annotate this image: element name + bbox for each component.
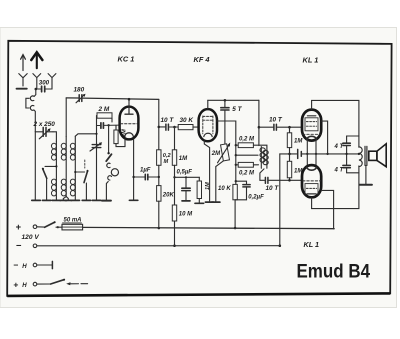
wire antenna column to ground <box>34 132 36 201</box>
wave switch right <box>74 160 88 200</box>
svg-text:120 V: 120 V <box>22 234 40 241</box>
resistor 20K <box>157 186 161 228</box>
KF4 screen side wire <box>217 121 236 181</box>
svg-text:4 T: 4 T <box>334 167 345 173</box>
KL1 upper screen wire <box>321 121 327 154</box>
antenna big arrow <box>31 52 42 68</box>
trimmer capacitor 2x250 <box>35 127 53 138</box>
node phase splitter <box>288 153 291 156</box>
svg-text:1µF: 1µF <box>140 168 151 174</box>
svg-text:+: + <box>16 221 22 232</box>
capacitor grid series <box>97 123 120 128</box>
trimmer capacitor grid <box>90 142 102 151</box>
svg-text:10 T: 10 T <box>161 117 175 124</box>
transformer brackets <box>347 136 359 173</box>
terminal + with switch and fuse <box>16 221 83 232</box>
schematic border frame <box>7 41 391 296</box>
svg-text:−: − <box>13 260 18 270</box>
potentiometer 2M <box>216 143 230 203</box>
terminal minus <box>16 240 37 251</box>
antenna small arrow <box>21 55 26 71</box>
KC1 cathode arc <box>125 133 134 136</box>
tube KC1 <box>120 107 139 140</box>
wire 180 line left vertical <box>65 98 67 137</box>
KC1 grid dashed <box>121 123 138 125</box>
ground bar pot <box>212 201 220 203</box>
ground bars coil2 <box>60 199 67 201</box>
wire KL1 anode to transformer top <box>312 100 359 136</box>
svg-text:5 T: 5 T <box>232 106 242 113</box>
svg-text:30 K: 30 K <box>180 117 194 124</box>
earth bar under left antenna <box>17 88 27 90</box>
bus +B from fuse <box>83 227 335 228</box>
svg-text:300: 300 <box>39 80 50 87</box>
node KC1 anode on top line <box>128 98 131 101</box>
resistor 0.2M upper <box>236 143 259 148</box>
antenna socket Y middle <box>33 74 41 89</box>
svg-text:0,2 M: 0,2 M <box>239 171 255 177</box>
ground bar 0.5uF <box>182 200 190 202</box>
capacitor 4T lower <box>343 165 350 172</box>
svg-text:KC 1: KC 1 <box>118 54 135 63</box>
detector coil <box>258 100 269 180</box>
resistor 2M vertical (grid leak) <box>114 125 125 146</box>
speaker <box>369 144 386 167</box>
KC1 heater lead left <box>124 139 126 146</box>
capacitor 0.5uF <box>182 177 190 201</box>
svg-text:1M: 1M <box>179 156 188 162</box>
node 30K grid junction <box>173 126 176 129</box>
wire coil3 top to grid column <box>75 134 96 136</box>
center tap wire <box>307 153 359 155</box>
grid column vertical (to trimmer and ground) <box>96 116 98 201</box>
tube KL1 upper <box>302 110 321 141</box>
tube KF4 <box>199 109 217 141</box>
terminal -H <box>13 260 52 270</box>
resistor 1M vertical AF <box>197 177 201 203</box>
resistor 1M <box>172 127 176 205</box>
antenna input socket Y left <box>19 74 27 86</box>
svg-text:0,2µF: 0,2µF <box>248 195 264 201</box>
ground bar 1M AF <box>195 202 204 204</box>
ground bar switch left <box>42 199 50 201</box>
resistor 30K <box>178 125 193 130</box>
KF4 screen top line <box>208 99 259 101</box>
plug link contacts <box>26 96 34 110</box>
KF4 cathode lead <box>204 141 209 202</box>
filament pins between tubes <box>306 139 308 166</box>
svg-text:KF 4: KF 4 <box>194 55 210 64</box>
ground bar cathode KC1 <box>129 199 137 201</box>
capacitor 5T <box>221 100 229 144</box>
node antenna junction <box>35 88 38 91</box>
anode top line KC1 (with 180 trimmer) <box>66 98 159 100</box>
svg-text:Emud B4: Emud B4 <box>297 260 371 282</box>
svg-text:2 x 250: 2 x 250 <box>33 121 56 128</box>
node 5T tap <box>224 99 227 102</box>
wire 0.5uF row <box>175 176 200 178</box>
ground bar coil3 <box>71 199 79 201</box>
svg-text:KL 1: KL 1 <box>303 56 319 65</box>
ground bar antenna column <box>32 199 41 201</box>
coil column 2 <box>61 137 68 201</box>
capacitor 10T coupling <box>159 124 178 130</box>
dial lamp branch <box>106 125 118 200</box>
coil column 3 <box>70 136 75 200</box>
svg-text:10 T: 10 T <box>269 117 283 124</box>
KF4 interior dashed <box>203 116 213 137</box>
ground bar lamp <box>102 200 111 202</box>
frame bottom thicker <box>7 293 390 296</box>
KC1 cathode lead right down <box>133 139 135 200</box>
svg-text:−: − <box>16 240 22 251</box>
terminal +H <box>13 279 87 290</box>
capacitor 10T KL1 grid <box>259 124 302 130</box>
node 0.5uF tap <box>173 176 175 178</box>
junction dots band filter <box>235 144 237 146</box>
wire node down to link <box>34 89 36 96</box>
wire 30K to KF4 grid <box>193 126 199 128</box>
ground bar switch right <box>82 199 90 201</box>
trimmer capacitor 180 <box>76 94 86 103</box>
KL1 lower anode to transformer <box>312 173 359 209</box>
svg-text:+: + <box>13 279 18 289</box>
transformer core <box>364 146 366 165</box>
tube KL1 lower <box>302 165 321 197</box>
B+ riser <box>279 154 281 246</box>
resistor 10M <box>172 205 176 246</box>
svg-text:2M: 2M <box>122 129 128 138</box>
svg-text:20K: 20K <box>162 192 175 198</box>
node lamp branch tap <box>107 124 109 126</box>
KL1 upper anode lead <box>311 100 313 109</box>
KL1 lower interior <box>303 167 321 194</box>
capacitor 4T upper <box>343 136 350 165</box>
svg-text:180: 180 <box>74 87 85 94</box>
capacitor 1uF <box>134 174 159 179</box>
KL1 lower anode lead <box>311 198 313 209</box>
antenna socket Y right <box>46 74 56 89</box>
resistor 1M lower KL1 <box>287 161 291 180</box>
resistor 1M upper KL1 <box>287 127 291 161</box>
coil column 1 (antenna coil) <box>51 132 56 201</box>
ground bar grid column <box>92 199 100 201</box>
svg-text:4 T: 4 T <box>334 144 345 150</box>
coupling capacitor between tubes <box>290 149 308 158</box>
capacitor 0.2uF <box>235 181 250 200</box>
svg-text:10 T: 10 T <box>266 185 280 192</box>
wire band filter middle <box>236 154 258 156</box>
output transformer winding <box>358 136 363 173</box>
resistor 10K <box>233 181 237 228</box>
ground bar coil1 <box>52 199 60 201</box>
svg-text:0,5µF: 0,5µF <box>177 169 193 175</box>
svg-text:KL 1: KL 1 <box>304 240 319 249</box>
node 10T tap <box>158 126 161 129</box>
wave switch left <box>42 165 58 200</box>
svg-text:M: M <box>164 159 169 165</box>
KL1 lower screen wire <box>321 190 333 228</box>
svg-text:H: H <box>22 282 27 289</box>
speaker ground <box>365 165 367 184</box>
capacitor 300 <box>36 86 45 92</box>
KF4 top lead <box>207 100 209 109</box>
svg-text:0,2 M: 0,2 M <box>239 136 255 142</box>
resistor 0.2M anode load <box>157 150 161 186</box>
node 1M top <box>288 126 291 129</box>
capacitor 10T detector <box>260 177 302 183</box>
svg-text:10 K: 10 K <box>218 186 231 192</box>
bus minus <box>37 245 280 247</box>
resistor 0.2M lower <box>236 162 259 167</box>
svg-text:H: H <box>22 263 27 270</box>
svg-text:10 M: 10 M <box>179 212 193 218</box>
wire link down <box>34 110 35 132</box>
resistor 2M grid <box>97 113 112 122</box>
svg-text:1M: 1M <box>294 139 303 145</box>
svg-text:2M: 2M <box>211 151 221 157</box>
ground bar KF4 cathode <box>205 201 213 203</box>
svg-text:0,2: 0,2 <box>163 153 172 159</box>
svg-text:2 M: 2 M <box>98 106 110 113</box>
wire anode corner down <box>158 99 160 149</box>
KL1 upper interior <box>303 116 321 139</box>
KC1 anode lead and bar <box>125 99 133 114</box>
